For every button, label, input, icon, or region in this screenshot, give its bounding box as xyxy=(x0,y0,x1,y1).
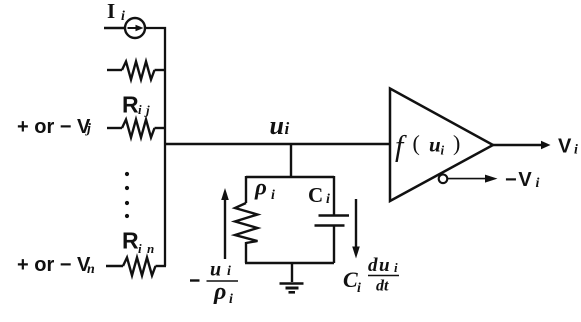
svg-text:i: i xyxy=(394,260,398,275)
svg-text:f: f xyxy=(395,130,407,163)
svg-text:d: d xyxy=(368,255,378,276)
svg-text:): ) xyxy=(453,131,460,156)
svg-text:I: I xyxy=(107,0,115,23)
svg-text:i: i xyxy=(536,176,540,191)
svg-text:i: i xyxy=(357,281,361,296)
svg-text:n: n xyxy=(147,241,154,256)
svg-text:ρ: ρ xyxy=(213,279,226,305)
svg-text:u: u xyxy=(429,133,441,157)
svg-text:− V: − V xyxy=(505,169,532,191)
svg-text:ρ: ρ xyxy=(254,175,267,200)
svg-text:+ or − V: + or − V xyxy=(17,116,91,138)
svg-text:i: i xyxy=(121,9,125,24)
svg-text:u: u xyxy=(270,111,284,140)
svg-text:(: ( xyxy=(413,131,420,156)
svg-text:C: C xyxy=(308,183,323,207)
svg-text:+ or − V: + or − V xyxy=(17,254,91,276)
svg-text:i: i xyxy=(227,264,231,279)
svg-text:u: u xyxy=(379,255,390,276)
svg-text:i: i xyxy=(138,102,142,117)
svg-text:j: j xyxy=(144,103,150,118)
svg-text:C: C xyxy=(343,267,358,292)
svg-text:i: i xyxy=(229,292,233,307)
svg-text:i: i xyxy=(271,188,275,203)
svg-text:n: n xyxy=(87,262,95,277)
svg-text:i: i xyxy=(441,143,445,158)
svg-text:i: i xyxy=(326,192,330,207)
svg-text:i: i xyxy=(138,241,142,256)
svg-text:V: V xyxy=(558,136,572,158)
svg-text:u: u xyxy=(210,259,221,281)
svg-text:i: i xyxy=(285,119,290,138)
svg-text:R: R xyxy=(122,228,139,254)
svg-text:i: i xyxy=(574,143,578,158)
svg-text:R: R xyxy=(122,92,139,118)
svg-text:dt: dt xyxy=(376,278,389,295)
